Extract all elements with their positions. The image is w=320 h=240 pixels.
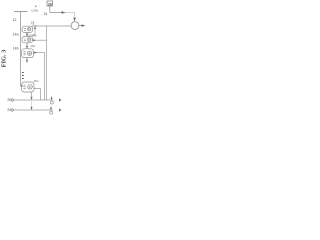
wire faint continuation between rows — [31, 101, 33, 107]
svg-text:20: 20 — [7, 98, 11, 102]
wire U4 right output — [34, 89, 41, 100]
arrowhead down into summer — [73, 18, 76, 22]
svg-text:24: 24 — [44, 12, 48, 16]
wire sum line to summer — [35, 25, 71, 27]
svg-text:12: 12 — [13, 18, 17, 22]
arrowhead at row2 — [30, 107, 32, 110]
wire bus corner into U4 — [21, 85, 23, 87]
wire V2 from U3 output down — [44, 53, 46, 100]
block U4 — [22, 82, 35, 92]
wire branch right from node between U1 U2 — [27, 34, 35, 36]
arrowhead on U2 output — [33, 39, 36, 41]
svg-text:FIG. 3: FIG. 3 — [1, 50, 8, 68]
wire U3 output right — [34, 52, 45, 54]
stub arrow down onto row2 end — [50, 107, 52, 110]
block U1 — [22, 26, 33, 32]
wire stub into row2 — [31, 107, 33, 111]
wire summer output — [79, 25, 85, 27]
arrowhead mid wire right — [62, 11, 66, 14]
terminal circle row2 left — [11, 109, 13, 111]
wire U3 down arrow — [26, 58, 28, 63]
wire U2 output right — [33, 39, 47, 41]
terminal circle row2 right — [50, 111, 53, 114]
superscript speck above label — [35, 6, 36, 7]
svg-text:16b: 16b — [31, 34, 36, 38]
terminal circle row1 left — [11, 99, 13, 101]
arrowhead into U4 left — [21, 85, 23, 87]
arrowhead on U3 output — [34, 52, 37, 54]
row1 output wire — [13, 99, 53, 101]
svg-text:(1/N): (1/N) — [31, 8, 38, 12]
arrowhead up at sum line — [34, 26, 36, 29]
wire U4 bottom down — [31, 92, 33, 100]
block U2 — [22, 37, 33, 43]
wire U2 to U3 arrow — [26, 43, 28, 49]
terminal circle row1 right — [50, 101, 53, 104]
small box top middle — [47, 1, 53, 6]
arrowhead down into U2 — [26, 34, 28, 37]
wire branch up to sum line — [34, 26, 36, 35]
svg-text:14a: 14a — [13, 33, 19, 37]
arrowhead down below U3 — [26, 60, 28, 63]
block U3 — [22, 49, 34, 58]
arrow glyph row1 — [59, 98, 62, 101]
svg-text:16c: 16c — [30, 44, 35, 48]
wire U1 to U2 arrow — [26, 32, 28, 36]
wire top box to summer — [50, 12, 65, 14]
row2 output wire — [13, 109, 53, 111]
summer circle — [71, 22, 79, 30]
svg-text:22: 22 — [7, 108, 11, 112]
wire bus vertical left — [20, 12, 22, 86]
arrowhead down into U3 — [26, 46, 28, 49]
ellipsis dots — [22, 73, 24, 79]
wire input top-left — [14, 11, 28, 13]
wire V1 from sum line down — [46, 26, 48, 100]
arrowhead at row1 — [30, 97, 32, 100]
wire from top box down — [49, 6, 51, 13]
svg-text:16n: 16n — [33, 79, 38, 83]
svg-text:14b: 14b — [13, 47, 19, 51]
stub arrow down onto row1 end — [51, 97, 53, 100]
svg-text:18: 18 — [31, 21, 35, 25]
arrow glyph row2 — [59, 108, 62, 111]
svg-text:26: 26 — [48, 2, 52, 6]
arrowhead summer output — [82, 24, 85, 27]
